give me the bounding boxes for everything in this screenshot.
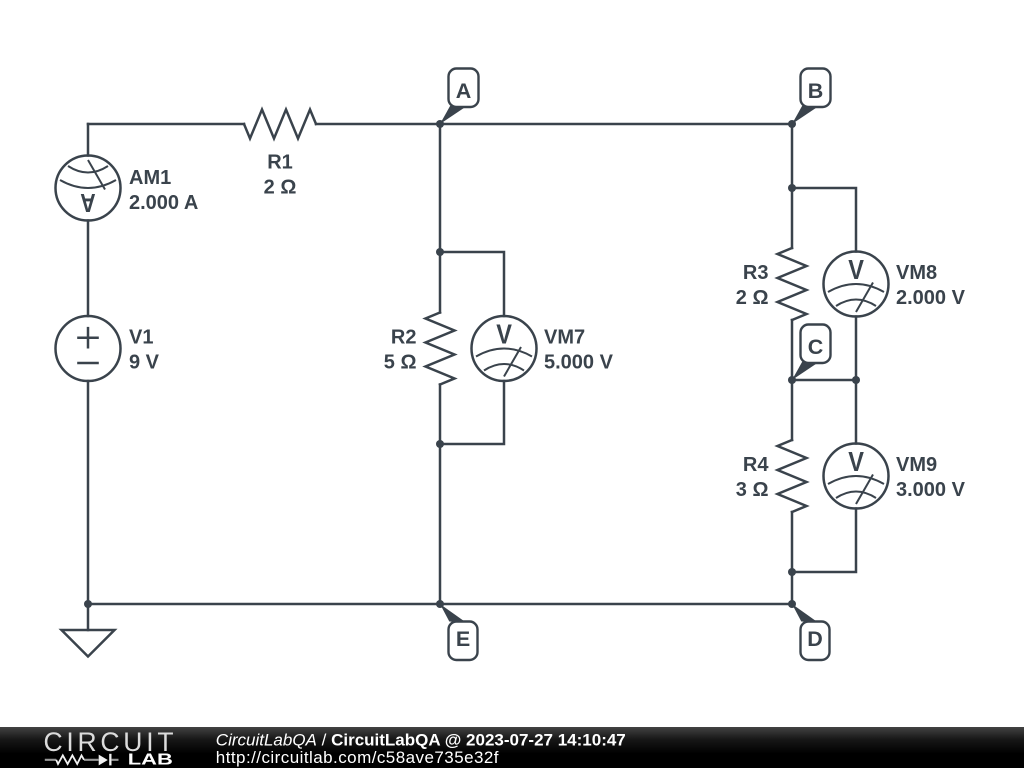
svg-text:V: V bbox=[848, 254, 864, 285]
svg-text:A: A bbox=[80, 188, 96, 218]
node C dot bbox=[788, 376, 796, 384]
svg-text:A: A bbox=[456, 79, 472, 103]
node E dot bbox=[436, 600, 444, 608]
voltmeter VM7 face bbox=[476, 347, 532, 377]
wire node C to VM8 bottom bbox=[792, 379, 856, 382]
junction R4 bottom bbox=[788, 568, 796, 576]
svg-text:http://circuitlab.com/c58ave73: http://circuitlab.com/c58ave735e32f bbox=[216, 748, 499, 767]
wire top: node A-B row bbox=[88, 123, 792, 126]
voltmeter VM9 face bbox=[828, 475, 884, 505]
svg-text:5.000 V: 5.000 V bbox=[544, 352, 614, 374]
ammeter AM1 meter face (flipped) bbox=[60, 160, 116, 190]
ground bbox=[62, 630, 115, 657]
ground wire stub bbox=[87, 604, 90, 630]
svg-text:B: B bbox=[808, 79, 824, 103]
junction R2 top bbox=[436, 248, 444, 256]
svg-text:R3: R3 bbox=[743, 262, 769, 284]
junction R2 bottom bbox=[436, 440, 444, 448]
resistor R2 bbox=[426, 313, 455, 385]
node A label bbox=[440, 69, 479, 125]
svg-text:5 Ω: 5 Ω bbox=[384, 352, 417, 374]
svg-text:VM8: VM8 bbox=[896, 262, 937, 284]
logo line art bbox=[45, 755, 119, 764]
wire VM9 loop bbox=[792, 380, 856, 572]
svg-text:2.000 A: 2.000 A bbox=[129, 192, 198, 214]
svg-text:VM7: VM7 bbox=[544, 327, 585, 349]
svg-text:2.000 V: 2.000 V bbox=[896, 287, 966, 309]
svg-text:2 Ω: 2 Ω bbox=[736, 287, 769, 309]
svg-text:3.000 V: 3.000 V bbox=[896, 479, 966, 501]
svg-text:D: D bbox=[807, 627, 823, 651]
node E label bbox=[440, 604, 478, 660]
wire VM7 loop bbox=[440, 252, 504, 444]
svg-text:C: C bbox=[808, 335, 824, 359]
wire middle branch x=440 bbox=[439, 124, 442, 604]
voltmeter VM9 circle bbox=[824, 444, 889, 509]
svg-text:V: V bbox=[496, 319, 512, 350]
node B dot bbox=[788, 120, 796, 128]
node B label bbox=[792, 69, 831, 125]
wire right branch x=792 bbox=[791, 124, 794, 604]
svg-text:AM1: AM1 bbox=[129, 167, 171, 189]
voltage source V1 circle bbox=[56, 316, 121, 381]
node D dot bbox=[788, 600, 796, 608]
svg-text:3 Ω: 3 Ω bbox=[736, 479, 769, 501]
svg-text:R1: R1 bbox=[267, 152, 293, 174]
svg-text:2 Ω: 2 Ω bbox=[264, 177, 297, 199]
logo diode bbox=[99, 755, 108, 766]
footer bar bbox=[0, 727, 1024, 768]
junction R3 top bbox=[788, 184, 796, 192]
voltage source V1 plus/minus bbox=[77, 327, 99, 363]
svg-text:VM9: VM9 bbox=[896, 454, 937, 476]
resistor R1 bbox=[244, 110, 316, 139]
voltmeter VM8 circle bbox=[824, 252, 889, 317]
wire VM8 loop bbox=[792, 188, 856, 380]
svg-text:V: V bbox=[848, 446, 864, 477]
svg-text:9 V: 9 V bbox=[129, 352, 160, 374]
svg-text:R2: R2 bbox=[391, 327, 417, 349]
node C label bbox=[792, 325, 831, 381]
junction VM8/VM9 bbox=[852, 376, 860, 384]
svg-text:CircuitLabQA / CircuitLabQA @: CircuitLabQA / CircuitLabQA @ 2023-07-27… bbox=[216, 731, 626, 750]
svg-text:E: E bbox=[456, 627, 470, 651]
svg-text:R4: R4 bbox=[743, 454, 769, 476]
node D label bbox=[792, 604, 830, 660]
wire bottom rail bbox=[88, 603, 792, 606]
node A dot bbox=[436, 120, 444, 128]
resistor R3 bbox=[778, 248, 807, 320]
ammeter AM1 circle bbox=[56, 156, 121, 221]
resistor R4 bbox=[778, 440, 807, 512]
wire left rail bbox=[87, 124, 90, 604]
svg-text:V1: V1 bbox=[129, 327, 153, 349]
voltmeter VM7 circle bbox=[472, 316, 537, 381]
junction ground bbox=[84, 600, 92, 608]
svg-text:LAB: LAB bbox=[128, 751, 173, 768]
voltmeter VM8 face bbox=[828, 283, 884, 313]
